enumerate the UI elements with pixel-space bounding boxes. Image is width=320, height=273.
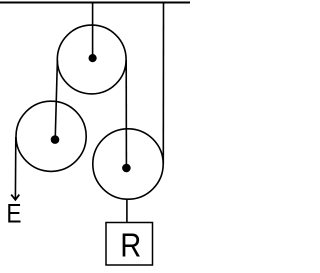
svg-text:R: R xyxy=(120,227,141,264)
pulley P2 left xyxy=(16,101,86,171)
pulley P1 top xyxy=(57,25,126,94)
arrowhead E xyxy=(11,195,19,200)
wire rope right to pulley P3 xyxy=(125,60,127,165)
load box R xyxy=(106,223,153,266)
wire hanger top pulley xyxy=(92,3,94,58)
svg-text:E: E xyxy=(6,198,21,229)
wire hanger load R xyxy=(126,199,128,223)
axle dot P3 xyxy=(122,164,131,173)
wire rope E pull xyxy=(14,137,16,199)
wire rope ceiling right xyxy=(162,3,164,164)
wire rope left to pulley P2 xyxy=(55,60,57,136)
ceiling line xyxy=(0,2,190,4)
axle dot P2 xyxy=(51,135,60,144)
axle dot P1 xyxy=(89,54,97,62)
pulley P3 right xyxy=(93,129,163,199)
